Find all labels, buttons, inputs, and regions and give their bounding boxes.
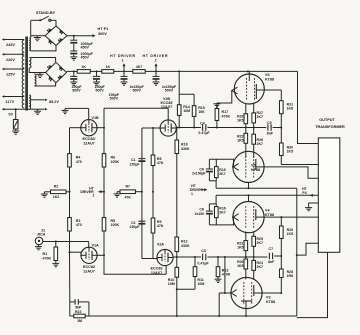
arrow HT DRIVER 1 supply (122, 63, 125, 71)
resistor R9 47K (151, 218, 155, 233)
wire ground bus (89, 315, 297, 317)
capacitor C6 2x150uF (206, 159, 213, 181)
wire HT P4 line to OPT (216, 194, 318, 196)
label R17 470K (222, 110, 231, 118)
wire V3 right lead (262, 292, 282, 294)
resistor R20 1K5 (244, 257, 248, 279)
label V3 KT88 (266, 296, 275, 304)
svg-text:KT88: KT88 (265, 77, 274, 81)
wire grid line lower to C7 (246, 256, 262, 258)
label filter cap 3 (109, 93, 120, 101)
label 56P (75, 306, 82, 310)
svg-text:RCA: RCA (38, 232, 46, 236)
svg-text:V1A: V1A (92, 243, 100, 247)
pentode V3 KT88 (231, 277, 262, 308)
wire V2A cathode stub (156, 258, 158, 259)
wire heater lead upper (31, 99, 48, 102)
label R12 330K (181, 240, 190, 248)
resistor R12 330K (175, 237, 179, 252)
wire V3 cathode to grid line (224, 256, 226, 293)
label ECC82 12AU7 (83, 137, 96, 145)
wire V2B plate line (176, 127, 201, 129)
transformer T1 secondary winding 1 (29, 38, 30, 51)
label R8 47K (157, 157, 164, 165)
svg-text:500V: 500V (72, 89, 81, 93)
wire primary tap 220V (2, 53, 24, 56)
wire secondary2 to bridge2 AC (35, 72, 46, 74)
svg-text:100K: 100K (111, 223, 120, 227)
wire V5 cathode return (216, 187, 297, 189)
svg-text:2K7: 2K7 (257, 241, 263, 245)
svg-text:1K8: 1K8 (287, 107, 293, 111)
label R3 470 (76, 219, 82, 227)
wire V1A cathode (69, 251, 82, 253)
svg-text:500V: 500V (165, 89, 174, 93)
svg-text:V1B: V1B (92, 116, 100, 120)
label filter cap 4 (162, 85, 177, 93)
capacitor 56P feedback (70, 299, 89, 305)
resistor R30 1K5 (280, 143, 284, 165)
wire grid line lower (208, 256, 247, 258)
svg-text:243V: 243V (6, 43, 15, 47)
svg-text:47K: 47K (157, 224, 164, 228)
svg-text:125V: 125V (6, 73, 15, 77)
wire V1B plate (97, 127, 106, 129)
wire block bottom (209, 181, 216, 189)
svg-text:TRANSFORMER: TRANSFORMER (315, 125, 345, 129)
resistor R22 1M feedback (70, 314, 89, 318)
svg-text:V2A: V2A (157, 243, 165, 247)
label R24 2K7 (257, 261, 263, 269)
triode V1B ECC82 (81, 120, 97, 136)
label R2 (53, 184, 59, 199)
plate of V6 (256, 84, 264, 99)
svg-text:ECC83: ECC83 (151, 267, 163, 271)
triode V2A ECC83 (157, 249, 173, 265)
label C6 value (192, 172, 205, 176)
wire 0V to thermistor (15, 108, 17, 119)
svg-text:2x150: 2x150 (195, 212, 205, 216)
svg-text:1K5: 1K5 (237, 245, 243, 249)
resistor R5 100K (102, 192, 106, 256)
svg-text:500V: 500V (95, 89, 104, 93)
wire V2A plate line (173, 256, 201, 258)
svg-text:12AU7: 12AU7 (83, 142, 94, 146)
triode V2B ECC83 (160, 120, 176, 136)
label R22 (75, 310, 81, 314)
svg-text:500V: 500V (110, 97, 119, 101)
svg-text:470: 470 (76, 223, 82, 227)
svg-text:OUTPUT: OUTPUT (319, 118, 335, 122)
transformer T1 core (26, 37, 28, 111)
svg-text:2: 2 (154, 59, 156, 63)
node chain junctions (73, 70, 157, 72)
label R27 2K7 (257, 111, 263, 119)
capacitor 1000uF 450V upper (70, 36, 77, 44)
wire grid into V1A (88, 242, 90, 248)
label 0V (9, 113, 14, 117)
label C7 8nF (268, 247, 275, 264)
svg-text:R7: R7 (125, 184, 130, 188)
label filter cap 1 (71, 85, 82, 93)
wire R10 top (176, 257, 178, 268)
svg-text:8nF: 8nF (268, 260, 275, 264)
resistor R15 10K (192, 94, 196, 127)
svg-text:1: 1 (191, 192, 193, 196)
label HT DRIVER 2 (143, 54, 168, 62)
wire grid into V1B (88, 108, 90, 120)
svg-text:2x150µF: 2x150µF (192, 172, 205, 176)
resistor R25 2K7 (252, 232, 256, 257)
svg-text:R2: R2 (54, 184, 59, 188)
label HT P4 (302, 187, 308, 195)
wire V1B cathode (70, 127, 82, 129)
label C9 8nF (267, 121, 274, 136)
resistor R14 10M (177, 94, 181, 127)
ground at R7 (114, 192, 121, 197)
label R13 470K (222, 268, 231, 276)
label 1K first (81, 65, 86, 69)
svg-text:1K5: 1K5 (237, 264, 243, 268)
svg-text:HT DRIVER: HT DRIVER (143, 54, 168, 58)
label 85.2V (49, 100, 59, 104)
wire HT rail to output transformer tap1 (298, 71, 319, 143)
pentode V5 KT88 (233, 151, 264, 182)
wire feedback from cathode (69, 252, 71, 316)
label J1 RCA (38, 228, 46, 236)
wire V1B grid (65, 107, 89, 109)
svg-text:10M: 10M (197, 282, 204, 286)
svg-text:47K: 47K (157, 161, 164, 165)
svg-text:2K7: 2K7 (257, 142, 263, 146)
pentode V4 KT88 (233, 202, 264, 233)
svg-text:117V: 117V (6, 100, 15, 104)
svg-text:ECC82/: ECC82/ (83, 137, 96, 141)
label C4 (200, 121, 205, 125)
resistor R3 470 (68, 192, 72, 252)
svg-text:HT DRIVER: HT DRIVER (110, 54, 135, 58)
wire V1A plate to V2A grid (104, 255, 166, 274)
wire primary tap 125V (2, 68, 24, 71)
wire V6 right lead (264, 89, 281, 91)
label HT P1 300V (98, 27, 109, 36)
wire V1B plate to V2B grid (104, 107, 168, 109)
ground at J1 (35, 244, 42, 250)
connector J1 RCA (35, 237, 43, 245)
triode V1A ECC82 (81, 247, 97, 263)
svg-text:300V: 300V (98, 32, 107, 36)
label R28 1R8 (287, 270, 293, 278)
label C1 220uF (130, 158, 141, 166)
resistor R16 2K7 (215, 204, 219, 225)
resistor R13 470K (216, 267, 220, 277)
ground at heater winding (34, 109, 41, 114)
transformer T1 heater winding (29, 95, 30, 109)
resistor R29 1K5 (280, 217, 284, 256)
svg-text:C7: C7 (269, 247, 274, 251)
label R9 47K (157, 220, 164, 228)
label ECC83 12AX7 lower (151, 267, 163, 275)
label C2 220uF (130, 221, 141, 229)
transformer T1 primary winding (22, 40, 24, 108)
label R20 1K5 (237, 260, 243, 268)
svg-text:C9: C9 (267, 121, 272, 125)
wire bridge1 output HT P1 (67, 34, 96, 37)
wire rail to V3 plate (280, 278, 282, 295)
wire HT rail to output stage (178, 70, 297, 72)
arrow HT DRIVER 1 feed (201, 188, 208, 191)
transformer T1 secondary winding 2 (29, 58, 36, 87)
capacitor C3 0.47uF (203, 254, 206, 261)
svg-text:C2: C2 (131, 221, 136, 225)
label R7 47K (124, 184, 131, 199)
label 4K7 (136, 65, 143, 69)
ground at bridge1 AC (34, 36, 41, 41)
svg-text:ECC82: ECC82 (83, 265, 95, 269)
label 1K second (105, 65, 110, 69)
svg-text:R1: R1 (43, 252, 48, 256)
label R23 1K5 (237, 114, 243, 122)
wire block top (209, 195, 216, 204)
ground at filter cap 3 (121, 81, 128, 85)
label 1M (77, 319, 82, 323)
wire OPT secondary return (297, 252, 328, 317)
label 1000uF 450V lower (81, 52, 94, 60)
resistor R28 1R8 (280, 256, 284, 278)
svg-text:470K: 470K (43, 256, 52, 260)
ground at filter cap 1 (70, 81, 77, 85)
label filter cap 2 (94, 85, 105, 93)
wire V3 plate to ground bus (245, 308, 247, 316)
wire R18 R12 column (176, 128, 178, 257)
capacitor C9 8nF (268, 124, 271, 131)
label R6 100K (111, 156, 120, 164)
resistor R23 1K5 (244, 103, 248, 127)
wire secondary1 to bridge1 AC (31, 35, 45, 37)
label 243V (6, 43, 15, 47)
svg-text:1K5: 1K5 (287, 232, 293, 236)
svg-text:10K: 10K (198, 110, 205, 114)
svg-text:HT P1: HT P1 (98, 27, 109, 31)
capacitor filter 2 (93, 71, 100, 81)
svg-text:0.47µF: 0.47µF (198, 131, 210, 135)
capacitor C4 0.47uF (203, 124, 206, 131)
svg-text:C1: C1 (131, 158, 136, 162)
label V1B (92, 116, 100, 120)
arrow HT P4 (310, 194, 313, 197)
wire secondary1 bottom to bridge1 (31, 45, 56, 51)
capacitor C8 2x150uF (206, 204, 213, 225)
resistor R7 47K (117, 190, 142, 194)
wire V3 cathode to ground bus (218, 293, 220, 316)
wire R13 top (217, 257, 219, 267)
svg-text:1M: 1M (77, 319, 82, 323)
label R30 1K5 (287, 145, 293, 153)
resistor R24 2K7 (252, 257, 256, 280)
resistor R31 1K8 upper rail (280, 90, 284, 143)
capacitor filter 4 (153, 71, 160, 81)
wire primary tap 243V (2, 38, 24, 41)
wire V5 plate to OPT tap3 (264, 167, 318, 178)
svg-text:KT88: KT88 (265, 213, 274, 217)
label C8 (199, 207, 204, 211)
svg-text:1K5: 1K5 (237, 118, 243, 122)
svg-text:C8: C8 (199, 207, 204, 211)
label C3 (201, 249, 206, 253)
svg-text:2K7: 2K7 (219, 172, 225, 176)
capacitor filter 3 (121, 71, 128, 81)
resistor R4 470 (68, 128, 72, 192)
label R16 2K7 (219, 206, 225, 214)
resistor R6 100K (102, 128, 106, 192)
thermistor TH1 (13, 120, 18, 130)
label R22 1K5 (237, 134, 243, 142)
wire primary tap 117V (2, 95, 24, 98)
resistor R2 1K2 (44, 190, 70, 194)
svg-text:85.2V: 85.2V (49, 100, 59, 104)
svg-text:470K: 470K (222, 273, 231, 277)
svg-text:C4: C4 (200, 121, 205, 125)
ground at V6 cathode (213, 103, 220, 109)
ground at filter cap 4 (153, 81, 160, 85)
svg-text:C3: C3 (201, 249, 206, 253)
ground at 1000uF caps (70, 55, 77, 60)
resistor R18 330K (175, 140, 179, 154)
label filter cap 3b (130, 85, 145, 93)
svg-text:KT88: KT88 (266, 300, 275, 304)
label 117V (6, 100, 15, 104)
wire V4 plate to OPT tap5 (264, 216, 318, 218)
svg-text:450V: 450V (81, 46, 90, 50)
svg-text:2K7: 2K7 (257, 115, 263, 119)
svg-text:1K: 1K (105, 65, 110, 69)
wire secondary1 top to switch (30, 20, 32, 38)
wire V1A plate (97, 254, 105, 256)
ground at OPT tap (305, 203, 312, 211)
resistor R8 47K (151, 155, 155, 166)
svg-text:220µF: 220µF (130, 225, 141, 229)
wire V4 cathode to block (209, 217, 233, 225)
wire OPT ground tap (309, 202, 319, 204)
svg-text:V3: V3 (266, 296, 271, 300)
svg-text:10M: 10M (183, 109, 190, 113)
svg-text:100K: 100K (111, 160, 120, 164)
resistor R27 2K7 (252, 103, 256, 128)
label R10 10M (168, 278, 175, 286)
resistor R19 2K7 (215, 159, 219, 181)
wire grid line upper (208, 127, 247, 129)
label 220V (6, 58, 15, 62)
svg-text:8nF: 8nF (267, 132, 274, 136)
svg-text:220V: 220V (6, 58, 15, 62)
svg-text:KT88: KT88 (251, 168, 260, 172)
svg-text:500V: 500V (132, 89, 141, 93)
svg-text:P4: P4 (302, 191, 306, 195)
svg-text:1R8: 1R8 (287, 274, 293, 278)
label R18 330K (181, 143, 190, 151)
label R26 2K7 (257, 138, 263, 146)
svg-text:0V: 0V (9, 113, 14, 117)
capacitor 1000uF 450V lower (70, 44, 77, 55)
wire J1 to V1A grid (43, 241, 89, 243)
wire R30 to OPT tap2 (281, 164, 318, 166)
wire grid line to C9 (246, 127, 266, 129)
label V6 KT88 (265, 73, 274, 81)
svg-text:12AU7: 12AU7 (83, 270, 94, 274)
label V1A (92, 243, 100, 247)
label R15 10K (198, 106, 205, 114)
wire grid into V2B (167, 108, 169, 120)
svg-text:12AX7: 12AX7 (151, 271, 162, 275)
label 0.47uF lower (197, 262, 209, 266)
cathode of V6 (232, 87, 238, 94)
label R19 2K7 (219, 168, 225, 176)
capacitor C1 220uF (138, 159, 145, 162)
svg-text:1K5: 1K5 (237, 138, 243, 142)
svg-text:2K7: 2K7 (257, 265, 263, 269)
resistor 1K second (102, 70, 114, 74)
wire plate rail upper (103, 108, 105, 127)
label R21 1K5 (237, 241, 243, 249)
wire V5 cathode to block (209, 159, 233, 167)
wire primary tap 0V (2, 108, 31, 111)
wire switch to bridge1 top (55, 20, 57, 26)
label 1000uF 450V upper (81, 42, 94, 50)
resistor R10 10M (175, 267, 179, 277)
label C6 (199, 168, 204, 172)
resistor 1K first (77, 70, 90, 74)
label 125V (6, 73, 15, 77)
label R4 470 (76, 156, 82, 164)
wire secondary2 top to bridge2 (31, 58, 56, 63)
label ECC82 12AU7 lower (83, 265, 95, 273)
label V2A (157, 243, 165, 247)
wire C7 leads (262, 255, 282, 257)
svg-text:450V: 450V (81, 56, 90, 60)
resistor 4K7 (133, 70, 145, 74)
svg-text:56P: 56P (75, 306, 82, 310)
wire HT driver chain (67, 70, 180, 72)
label 0.47uF upper (198, 131, 210, 135)
svg-text:V5: V5 (251, 163, 256, 167)
label R21 1K8 (287, 103, 293, 111)
bridge rectifier BR2 (46, 62, 67, 82)
wire cathode rail to V2A (142, 258, 158, 260)
label R11 10M (197, 278, 204, 286)
switch S1 stand-by (31, 16, 56, 21)
svg-text:R22: R22 (75, 310, 81, 314)
label HT DRIVER 1 feed (190, 184, 204, 196)
svg-text:1K2: 1K2 (53, 195, 59, 199)
label R5 100K (111, 219, 120, 227)
capacitor C7 8nF (269, 253, 272, 260)
svg-text:0.47µF: 0.47µF (197, 262, 209, 266)
svg-text:330K: 330K (181, 244, 190, 248)
wire secondary2 bottom to bridge2 (35, 83, 56, 86)
wire ground bus riser (296, 188, 298, 316)
wire lower jog to ground bus (176, 277, 195, 316)
resistor R11 10M (193, 267, 197, 290)
label R29 1K5 (287, 228, 293, 236)
wire heater lead lower (31, 108, 48, 111)
wire feedback network right node (88, 302, 90, 316)
capacitor C2 220uF (138, 221, 145, 224)
wire cathode rail C1 C2 (141, 128, 143, 259)
resistor R17 470K (215, 109, 219, 128)
wire V6 cathode to ground (217, 91, 232, 104)
bridge rectifier BR1 (45, 26, 67, 45)
svg-text:1K: 1K (81, 65, 86, 69)
